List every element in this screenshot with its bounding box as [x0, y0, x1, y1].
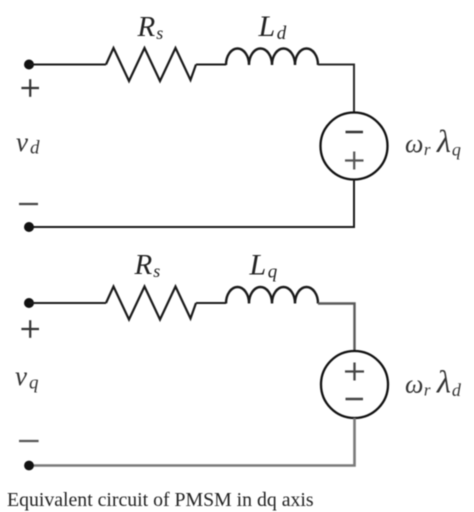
node: bottom-left terminal dot (v_d -): [24, 222, 34, 232]
node: bottom-left terminal dot (v_q -): [24, 461, 34, 471]
resistor R2 (Rs, bottom): [106, 287, 196, 320]
svg-text:Equivalent circuit of PMSM in: Equivalent circuit of PMSM in dq axis: [7, 489, 314, 511]
resistor R1 (Rs, top): [106, 48, 196, 81]
node: top-left terminal dot (v_q +): [24, 298, 34, 308]
wire: source bottom down and left along bottom: [29, 180, 354, 228]
wire: inductor to corner, down to source (grey): [318, 304, 355, 352]
plus terminal sign (bottom circuit): [21, 328, 39, 330]
wire: top-left horizontal to resistor: [29, 64, 106, 66]
polarity plus inside bottom source: [345, 370, 364, 372]
inductor L1 (Ld, top): [226, 49, 318, 66]
minus terminal sign (top circuit): [19, 203, 38, 205]
wire: resistor to inductor: [196, 64, 226, 66]
minus terminal sign (bottom circuit): [19, 440, 39, 442]
inductor L2 (Lq, bottom): [226, 287, 318, 304]
node: top-left terminal dot (v_d +): [24, 60, 34, 70]
wire: resistor to inductor: [196, 302, 226, 304]
wire: to resistor: [29, 302, 106, 304]
plus terminal sign (top circuit): [21, 87, 39, 89]
polarity minus inside top source: [346, 131, 364, 133]
polarity plus inside top source: [345, 159, 364, 161]
polarity minus inside bottom source: [346, 398, 364, 400]
source V2 (dependent source, bottom): [321, 351, 388, 418]
source V1 (dependent source, top): [321, 113, 388, 180]
wire: inductor to top-right corner, down to source: [318, 65, 354, 114]
wire: source bottom down, left along bottom (grey): [29, 418, 355, 466]
